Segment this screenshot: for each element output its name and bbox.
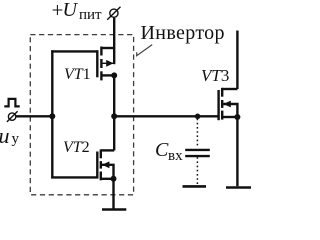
VT2 substrate arrow (points left, n-channel): [102, 161, 109, 168]
source lead: [222, 116, 237, 118]
ground (inverter): [102, 208, 126, 211]
label Инвертор: [141, 21, 225, 45]
wire: VT2 gate lead: [51, 176, 98, 178]
label VT3: [201, 66, 229, 86]
drain lead: [222, 88, 237, 90]
channel segments: [100, 47, 102, 56]
wire: VT1 gate lead: [51, 50, 98, 52]
label +Uпит: [52, 0, 64, 21]
transistor VT2 (n-channel MOSFET): [97, 149, 114, 180]
substrate lead: [102, 165, 114, 179]
node: VT3 source dot: [234, 114, 240, 120]
gate bar: [96, 50, 98, 77]
input terminal: [7, 111, 18, 122]
wire: input wire from terminal to bus: [16, 115, 53, 117]
leader line from label to dashed box: [137, 45, 153, 56]
channel segments: [221, 88, 223, 97]
source lead: [101, 178, 114, 180]
wire: dotted lead to Cвх: [196, 119, 198, 148]
wire: supply rail into box: [113, 18, 115, 64]
node: input junction dot: [49, 113, 55, 119]
wire: dotted lead below Cвх: [196, 157, 198, 185]
gate bar: [96, 152, 98, 179]
label Cвх: [155, 140, 168, 160]
substrate lead: [223, 104, 237, 117]
wire: VT2 source to ground: [112, 179, 114, 210]
transistor VT1 (p-channel MOSFET): [97, 47, 114, 81]
ground (VT3): [226, 186, 251, 189]
VT3 substrate arrow (points left, n-channel): [223, 101, 230, 108]
substrate lead: [103, 62, 115, 64]
capacitor Cвх plates: [185, 149, 210, 151]
node: input bus vertical wire: [51, 50, 53, 178]
source lead: [101, 74, 114, 76]
pulse symbol: [4, 99, 19, 107]
transistor VT3 (n-channel MOSFET): [219, 88, 238, 120]
drain lead: [101, 149, 114, 151]
node: output junction dot: [111, 113, 117, 119]
node: VT1 source dot: [111, 72, 117, 78]
wire: VT3 source to ground: [236, 117, 238, 186]
label VT2: [63, 138, 90, 157]
node: Cвх junction dot: [195, 114, 201, 120]
wire: output to VT3 gate: [114, 115, 219, 117]
VT1 substrate arrow (points right, p-channel): [106, 60, 113, 67]
ground (Cвх): [183, 185, 207, 188]
power terminal +Uпит: [107, 7, 120, 20]
wire: VT1 source to VT2 drain: [113, 75, 115, 150]
dashed box (Инвертор outline): [30, 35, 133, 195]
label VT1: [64, 65, 91, 84]
gate bar: [217, 90, 219, 120]
drain lead: [101, 47, 114, 49]
label uу: [0, 125, 10, 147]
channel segments: [100, 149, 102, 158]
wire: VT3 drain rail up: [236, 31, 238, 90]
node: VT2 source dot: [111, 176, 117, 182]
